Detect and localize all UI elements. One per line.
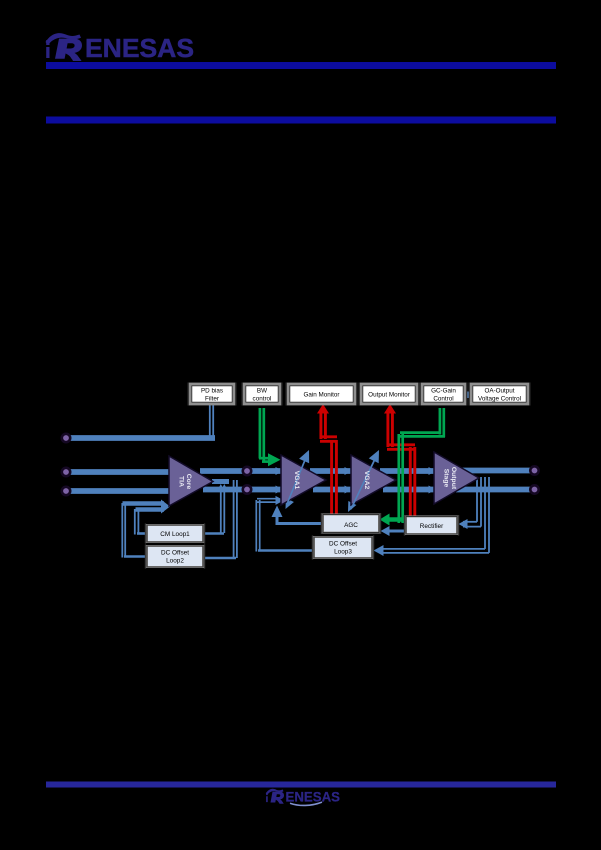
svg-text:GC-Gain: GC-Gain (431, 388, 456, 395)
svg-text:ENESAS: ENESAS (85, 33, 194, 63)
svg-text:VGA2: VGA2 (363, 471, 370, 490)
svg-text:VGA1: VGA1 (293, 471, 300, 490)
svg-text:Filter: Filter (205, 396, 219, 403)
svg-text:DC Offset: DC Offset (329, 541, 357, 548)
svg-text:Voltage Control: Voltage Control (478, 396, 521, 403)
svg-text:PD bias: PD bias (201, 388, 223, 395)
svg-text:OutputStage: OutputStage (442, 467, 457, 490)
svg-text:control: control (253, 396, 272, 403)
svg-text:Control: Control (433, 396, 453, 403)
svg-text:AGC: AGC (344, 522, 358, 529)
svg-text:BW: BW (257, 388, 267, 395)
svg-text:OA-Output: OA-Output (484, 388, 514, 395)
svg-text:Rectifier: Rectifier (420, 523, 444, 530)
svg-text:CM Loop1: CM Loop1 (160, 531, 190, 538)
svg-text:Loop2: Loop2 (166, 558, 184, 565)
svg-text:DC Offset: DC Offset (161, 550, 189, 557)
svg-text:Gain Monitor: Gain Monitor (303, 392, 339, 399)
svg-text:Loop3: Loop3 (334, 549, 352, 556)
svg-text:Output Monitor: Output Monitor (368, 392, 410, 399)
svg-text:ENESAS: ENESAS (286, 789, 341, 804)
